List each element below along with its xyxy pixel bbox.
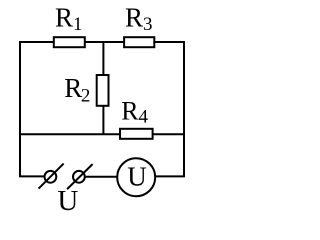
terminal X2 bbox=[67, 164, 93, 189]
resistor R2 bbox=[97, 75, 109, 106]
wire top rail bbox=[19, 41, 185, 43]
resistor R1 bbox=[54, 37, 85, 47]
label R2 bbox=[64, 73, 90, 106]
label R4 bbox=[121, 96, 148, 127]
label R1 bbox=[55, 2, 83, 35]
label U source voltage bbox=[57, 185, 78, 217]
resistor R4 bbox=[120, 129, 153, 139]
terminal X1 bbox=[39, 164, 64, 189]
wire left rail bbox=[19, 41, 21, 176]
resistor R3 bbox=[124, 37, 154, 47]
wire middle horizontal rail bbox=[19, 133, 185, 135]
svg-text:U: U bbox=[127, 162, 147, 192]
wire between terminal 2 and voltmeter bbox=[85, 176, 117, 178]
label R3 bbox=[125, 2, 153, 35]
wire bottom right segment bbox=[156, 175, 186, 177]
voltmeter U1 bbox=[117, 158, 155, 196]
wire right rail bbox=[183, 41, 185, 176]
svg-text:U: U bbox=[57, 185, 78, 217]
wire middle vertical branch bbox=[102, 42, 104, 134]
wire bottom left segment bbox=[19, 175, 44, 177]
